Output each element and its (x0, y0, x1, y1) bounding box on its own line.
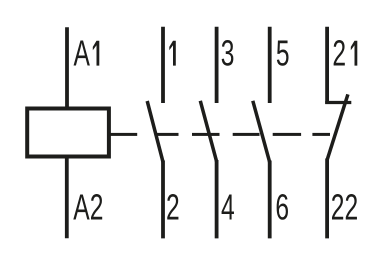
svg-text:6: 6 (275, 187, 289, 228)
wire: NC auxiliary contact top lead (pin 21) (325, 27, 329, 104)
wire: NO contact 3 top lead (pin 5) (268, 27, 272, 103)
pin label 21 (332, 33, 357, 74)
pin label 1 (169, 41, 176, 66)
wire: NO contact 2 top lead (pin 3) (215, 27, 219, 103)
coil K (operating coil A1-A2) (27, 109, 109, 157)
wire: NO contact 3 bottom lead (pin 6) (268, 161, 272, 239)
svg-text:3: 3 (221, 33, 235, 74)
svg-text:5: 5 (276, 33, 290, 74)
pin label A1 (74, 33, 100, 74)
dashed mechanical linkage line (109, 133, 330, 136)
NC contact fixed contact bar (325, 101, 351, 104)
NO contact 1 moving blade (147, 101, 163, 162)
wire: NO contact 1 bottom lead (pin 2) (161, 161, 165, 239)
svg-text:A2: A2 (73, 187, 103, 228)
svg-text:A: A (74, 33, 91, 74)
wire: NC auxiliary contact bottom lead (pin 22) (325, 159, 329, 239)
svg-text:2: 2 (166, 187, 180, 228)
NC contact moving blade (327, 94, 348, 160)
svg-text:4: 4 (221, 187, 235, 228)
wire: coil terminal A1 lead (65, 27, 69, 108)
wire: NO contact 1 top lead (pin 1) (161, 27, 165, 103)
NO contact 3 moving blade (253, 101, 270, 163)
NO contact 2 moving blade (200, 101, 216, 162)
svg-text:2: 2 (332, 33, 346, 74)
wire: NO contact 2 bottom lead (pin 4) (215, 160, 219, 238)
wire: coil terminal A2 lead (65, 157, 69, 238)
svg-text:22: 22 (331, 187, 358, 228)
